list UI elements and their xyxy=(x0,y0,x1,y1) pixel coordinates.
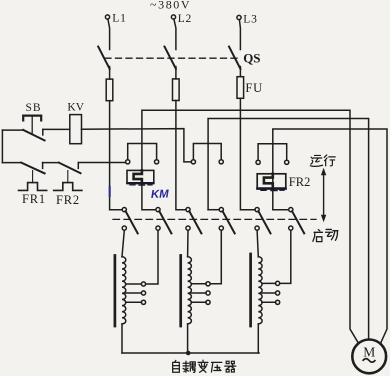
svg-text:M: M xyxy=(363,345,375,360)
svg-text:~380V: ~380V xyxy=(150,0,191,12)
svg-text:L3: L3 xyxy=(243,14,257,26)
svg-text:L2: L2 xyxy=(178,13,192,25)
svg-text:FR1: FR1 xyxy=(22,192,46,206)
svg-text:KV: KV xyxy=(67,102,84,114)
svg-text:FR2: FR2 xyxy=(56,193,80,207)
svg-text:SB: SB xyxy=(26,102,42,114)
svg-text:KM: KM xyxy=(151,188,170,201)
svg-text:FR2: FR2 xyxy=(289,175,311,189)
svg-text:L1: L1 xyxy=(112,13,126,25)
svg-text:FU: FU xyxy=(245,81,263,95)
svg-text:QS: QS xyxy=(243,51,260,66)
